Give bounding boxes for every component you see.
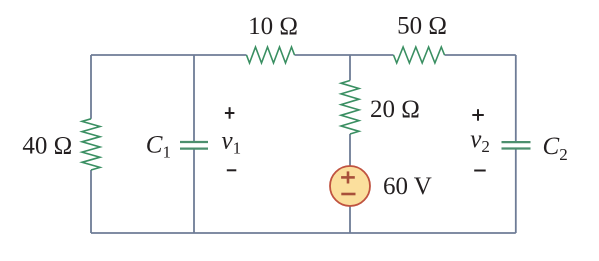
svg-text:60 V: 60 V [383, 173, 432, 200]
svg-text:20 Ω: 20 Ω [370, 96, 420, 123]
svg-text:50 Ω: 50 Ω [397, 13, 447, 40]
svg-text:10 Ω: 10 Ω [248, 13, 298, 40]
svg-text:40 Ω: 40 Ω [22, 133, 72, 160]
